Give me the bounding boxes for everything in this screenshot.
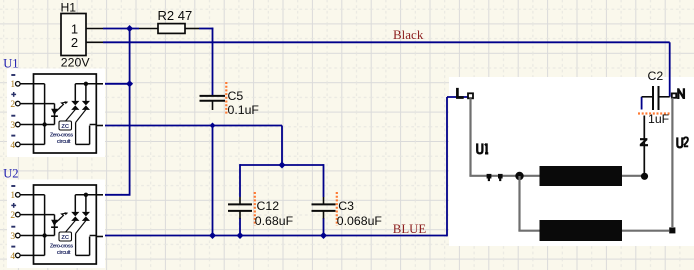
resistor R2 xyxy=(139,24,199,34)
wire N down right side xyxy=(671,98,673,228)
junction dot at branch xyxy=(515,172,523,180)
connector H1 xyxy=(61,14,103,56)
svg-text:2: 2 xyxy=(71,35,78,50)
svg-text:R2 47: R2 47 xyxy=(158,8,193,23)
capacitor C5 xyxy=(200,96,226,110)
svg-text:4: 4 xyxy=(10,141,15,151)
error marker at C2 xyxy=(638,112,671,114)
wire vertical from top node to U2 pin xyxy=(103,29,131,195)
error marker at C5 xyxy=(225,82,227,114)
terminal Z dot xyxy=(641,173,648,180)
svg-text:2: 2 xyxy=(10,100,15,110)
svg-text:1: 1 xyxy=(10,80,15,90)
svg-text:ZC: ZC xyxy=(61,235,70,241)
junction square right xyxy=(669,227,675,233)
lamp 2 right lead xyxy=(622,230,669,232)
svg-text:circuit: circuit xyxy=(57,139,71,145)
wire C12 bottom lead xyxy=(239,218,241,236)
wire C12/C3 top bus xyxy=(240,164,324,197)
wire to lamp1 xyxy=(469,175,541,177)
svg-text:4: 4 xyxy=(10,252,15,262)
wire U1 top pin to vertical xyxy=(103,83,130,85)
label U1 (picture) xyxy=(477,143,488,153)
svg-text:C12: C12 xyxy=(257,199,280,213)
U2 symbol white background xyxy=(7,180,105,269)
terminal L square xyxy=(468,93,473,98)
connector tick 2 xyxy=(498,174,503,181)
lamp 1 xyxy=(540,166,623,186)
svg-text:0.068uF: 0.068uF xyxy=(337,214,383,228)
wire C2 left lead stub xyxy=(641,97,643,110)
svg-text:U1: U1 xyxy=(3,57,18,71)
svg-text:0.68uF: 0.68uF xyxy=(255,214,294,228)
U2 right pin stubs xyxy=(96,195,103,237)
label N xyxy=(678,88,684,99)
label L xyxy=(457,88,463,98)
junction at U1 top pin node xyxy=(126,80,133,87)
svg-text:BLUE: BLUE xyxy=(393,222,427,236)
junction at H1/R2 node xyxy=(126,25,133,32)
junction at C5 bottom node xyxy=(210,123,216,129)
capacitor C3 xyxy=(312,197,336,219)
svg-text:1: 1 xyxy=(10,191,15,201)
junction at C12/C3 top bus xyxy=(279,162,286,169)
wire C3 bottom lead xyxy=(323,218,325,236)
svg-text:ZC: ZC xyxy=(61,124,70,130)
capacitor C12 xyxy=(228,197,252,219)
capacitor C2 xyxy=(642,86,670,110)
svg-text:3: 3 xyxy=(10,232,15,242)
wire net BLUE: U2 lower pin to lamp L terminal xyxy=(103,97,468,236)
wire Z up to C2 xyxy=(643,116,645,175)
junction C5 leg on BLUE net xyxy=(209,232,216,239)
error marker at C12 xyxy=(254,192,256,226)
label U2 (picture) xyxy=(677,137,688,147)
lamp 1 right lead to Z xyxy=(622,175,642,177)
svg-text:H1: H1 xyxy=(61,0,77,14)
error marker at C3 xyxy=(336,192,338,226)
svg-text:220V: 220V xyxy=(61,56,91,70)
label Z xyxy=(640,139,648,145)
wire net Black: H1 pin2 to N xyxy=(103,42,670,97)
svg-text:C5: C5 xyxy=(228,89,244,103)
opto-triac U2 xyxy=(15,185,96,264)
svg-text:C2: C2 xyxy=(648,69,664,83)
terminal N square xyxy=(672,93,676,97)
wire branch down to lamp2 xyxy=(518,176,539,231)
junction C12 leg on BLUE net xyxy=(237,232,244,239)
svg-text:Black: Black xyxy=(393,27,424,42)
lamp fixture picture background xyxy=(449,77,694,246)
connector tick 1 xyxy=(487,174,492,181)
svg-text:1: 1 xyxy=(71,21,78,36)
wire C5 bottom to BLUE net xyxy=(212,126,214,236)
svg-text:U2: U2 xyxy=(3,167,18,181)
svg-text:2: 2 xyxy=(10,211,15,221)
svg-text:3: 3 xyxy=(10,121,15,131)
U2 pin numbers 1-4 with polarity marks xyxy=(10,186,16,262)
svg-text:0.1uF: 0.1uF xyxy=(228,103,260,117)
svg-text:circuit: circuit xyxy=(57,250,71,256)
wire U1 lower pin across to C12/C3 feeder xyxy=(103,126,282,166)
svg-text:Zero-cross: Zero-cross xyxy=(50,132,73,138)
wire R2 to C5 corner xyxy=(199,28,213,97)
U1 right pin stubs xyxy=(96,84,103,126)
wire H1 pin1 to R2 (net top) xyxy=(103,28,139,30)
svg-text:1uF: 1uF xyxy=(648,112,670,126)
lamp 2 xyxy=(540,220,623,241)
U1 pin numbers 1-4 with polarity marks xyxy=(10,75,16,151)
wire L down xyxy=(469,98,471,176)
opto-triac U1 xyxy=(15,74,96,153)
svg-text:C3: C3 xyxy=(338,199,354,213)
junction C3 leg on BLUE net xyxy=(320,232,327,239)
U1 symbol white background xyxy=(7,69,105,158)
svg-text:Zero-cross: Zero-cross xyxy=(50,243,73,249)
